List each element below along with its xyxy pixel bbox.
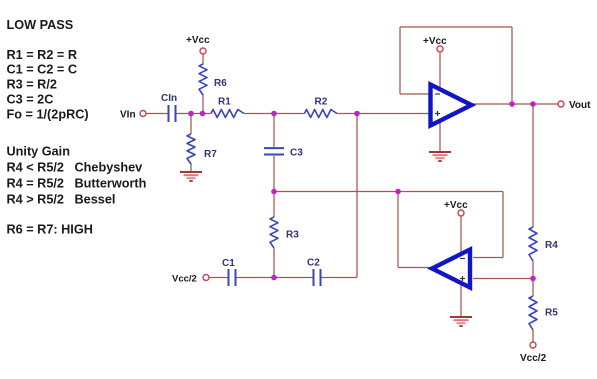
svg-text:LOW PASS: LOW PASS — [7, 18, 74, 32]
terminal Vcc/2 right — [530, 342, 536, 348]
wire lower loop top — [274, 191, 503, 193]
capacitor C3 — [264, 148, 303, 159]
svg-text:R4 = R5/2: R4 = R5/2 — [7, 177, 64, 191]
op-amp U1 — [431, 85, 472, 126]
wire R4 to R5 — [532, 261, 534, 296]
op-amp U2 — [432, 250, 470, 288]
node R3 bottom junction — [271, 275, 277, 281]
wire U1 feedback top — [400, 26, 512, 28]
svg-text:R4 > R5/2: R4 > R5/2 — [7, 193, 64, 207]
resistor R4 — [529, 227, 558, 261]
svg-text:+Vcc: +Vcc — [444, 200, 468, 211]
svg-text:Unity Gain: Unity Gain — [7, 145, 70, 159]
ground below U2 — [450, 317, 472, 326]
wire U2 inverting input — [473, 257, 503, 259]
wire Vout node to R4 — [532, 104, 534, 227]
svg-text:R1: R1 — [218, 97, 231, 108]
svg-text:Vout: Vout — [569, 100, 591, 111]
wire R2 node riser — [356, 114, 358, 278]
wire node to R7 — [190, 114, 192, 135]
svg-text:R3: R3 — [286, 230, 299, 241]
wire Vcc to R6 — [202, 54, 204, 65]
terminal +Vcc R6 — [200, 48, 206, 54]
svg-text:R4 < R5/2: R4 < R5/2 — [7, 161, 64, 175]
wire U2 output riser — [397, 192, 399, 268]
terminal +Vcc U2 — [458, 210, 464, 216]
terminal +Vcc U1 — [437, 46, 443, 52]
node C3 bottom junction — [271, 189, 277, 195]
svg-text:R1 = R2 = R: R1 = R2 = R — [7, 48, 78, 62]
resistor R7 — [187, 134, 217, 164]
svg-text:CIn: CIn — [161, 93, 177, 104]
node U1 feedback junction — [509, 101, 515, 107]
wire R6 to node — [202, 94, 204, 114]
node R7 junction — [188, 111, 194, 117]
wire U2 non-inverting input — [473, 278, 533, 280]
node U2 feedback junction — [395, 189, 401, 195]
terminal VIn — [140, 111, 146, 117]
svg-text:Fo = 1/(2pRC): Fo = 1/(2pRC) — [7, 108, 89, 122]
svg-text:C3 = 2C: C3 = 2C — [7, 93, 54, 107]
wire Vin to CIn — [146, 113, 168, 115]
wire U2 output — [398, 267, 433, 269]
ground below R7 — [180, 172, 202, 181]
wire U1 feedback right — [511, 27, 513, 104]
wire U2 feedback right — [502, 192, 504, 258]
wire U2 to ground — [460, 283, 462, 317]
wire U1 feedback left — [399, 27, 401, 94]
svg-text:Bessel: Bessel — [75, 193, 116, 207]
terminal Vout — [558, 101, 564, 107]
svg-text:R7: R7 — [204, 149, 217, 160]
wire CIn to R1 — [176, 113, 211, 115]
wire C2 to riser — [321, 277, 357, 279]
node R2 output junction — [354, 111, 360, 117]
svg-text:C1: C1 — [222, 258, 235, 269]
svg-text:R6 = R7: HIGH: R6 = R7: HIGH — [7, 223, 93, 237]
wire U1 output to Vout — [472, 103, 558, 105]
svg-text:R4: R4 — [545, 240, 558, 251]
wire U2 Vcc supply — [460, 216, 462, 254]
capacitor C2 — [307, 258, 321, 287]
resistor R3 — [270, 217, 299, 248]
wire C3 to node — [273, 156, 275, 192]
resistor R1 — [211, 97, 244, 118]
node R4 branch junction — [530, 101, 536, 107]
svg-text:+Vcc: +Vcc — [423, 36, 447, 47]
wire R2 to opamp U1 + input — [337, 113, 429, 115]
wire node to C3 — [273, 114, 275, 148]
svg-text:R2: R2 — [315, 97, 328, 108]
node R4 R5 junction — [530, 276, 536, 282]
wire Vcc/2 to C1 — [209, 277, 228, 279]
svg-text:Butterworth: Butterworth — [75, 177, 147, 191]
resistor R2 — [305, 97, 338, 118]
svg-text:Chebyshev: Chebyshev — [75, 161, 143, 175]
svg-text:C1 = C2 = C: C1 = C2 = C — [7, 63, 78, 77]
capacitor C1 — [222, 258, 236, 286]
svg-text:C2: C2 — [307, 258, 320, 269]
node C3 top junction — [271, 111, 277, 117]
wire U1 inverting input — [400, 93, 430, 95]
svg-text:C3: C3 — [290, 148, 303, 159]
svg-text:R6: R6 — [214, 78, 227, 89]
wire U1 Vcc supply — [439, 52, 441, 91]
wire C1 to C2 — [236, 277, 313, 279]
svg-text:+Vcc: +Vcc — [186, 35, 210, 46]
wire R7 to ground — [190, 163, 192, 172]
terminal Vcc/2 left — [203, 275, 209, 281]
wire U1 to ground — [439, 118, 441, 152]
svg-text:R3 = R/2: R3 = R/2 — [7, 78, 57, 92]
wire R1 to R2 — [244, 113, 305, 115]
wire node to R3 — [273, 192, 275, 218]
resistor R5 — [529, 296, 558, 330]
wire R3 to node — [273, 248, 275, 277]
ground below U1 — [429, 152, 451, 161]
svg-text:VIn: VIn — [120, 110, 136, 121]
svg-text:R5: R5 — [545, 308, 558, 319]
node R6 junction — [200, 111, 206, 117]
wire R5 to Vcc/2 — [532, 330, 534, 342]
svg-text:Vcc/2: Vcc/2 — [172, 274, 197, 285]
capacitor CIn — [161, 93, 177, 122]
resistor R6 — [199, 64, 227, 95]
svg-text:Vcc/2: Vcc/2 — [520, 353, 547, 364]
